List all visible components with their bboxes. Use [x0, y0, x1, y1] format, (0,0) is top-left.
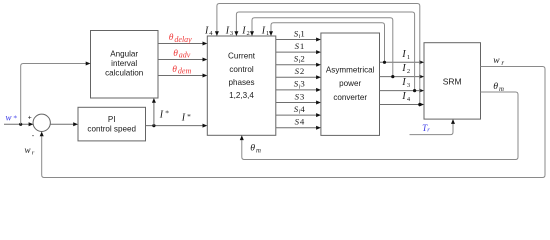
svg-text:1,2,3,4: 1,2,3,4 [229, 91, 254, 100]
svg-text:*: * [165, 109, 169, 118]
label: w_r (lower left) [25, 145, 35, 157]
label: T_r (blue) [422, 123, 430, 134]
wire: S_i1 [276, 38, 321, 42]
wire: w_r feedback loop [40, 67, 545, 178]
wire: theta_delay [158, 42, 207, 46]
label: I_1 (top) [261, 25, 269, 37]
svg-text:2: 2 [407, 68, 410, 75]
svg-text:w: w [493, 56, 500, 66]
label: I_3 (mid) [401, 77, 410, 89]
svg-text:*: * [13, 114, 17, 123]
wire: w* input [4, 122, 33, 126]
svg-text:adv: adv [179, 51, 191, 60]
svg-text:θ: θ [493, 81, 498, 92]
node: I_3 tap [413, 89, 416, 92]
wire: S3 [276, 101, 321, 105]
svg-text:power: power [339, 79, 361, 88]
wire: S1 [276, 50, 321, 54]
label: theta_adv (red) [173, 49, 191, 60]
wire: S_i4 [276, 113, 321, 117]
wire: S2 [276, 75, 321, 79]
svg-text:w: w [25, 145, 31, 155]
svg-text:*: * [187, 112, 191, 121]
svg-text:w: w [6, 113, 12, 123]
svg-text:control speed: control speed [87, 125, 136, 134]
node: I* junction [152, 124, 155, 127]
svg-text:4: 4 [300, 104, 305, 114]
svg-text:3: 3 [300, 79, 305, 89]
label: S2 [295, 66, 305, 76]
svg-text:3: 3 [407, 82, 410, 89]
svg-text:delay: delay [174, 35, 192, 44]
wire: I_1 converter to SRM [380, 60, 425, 64]
wire: S_i3 [276, 88, 321, 92]
svg-text:m: m [256, 147, 261, 154]
svg-text:+: + [28, 114, 32, 121]
svg-text:I: I [401, 77, 406, 88]
svg-text:3: 3 [300, 91, 305, 101]
svg-text:1: 1 [300, 41, 304, 51]
svg-text:2: 2 [300, 54, 304, 64]
svg-text:S: S [295, 91, 300, 101]
wire: w* to Angular interval calculation [21, 62, 91, 125]
block: Current control phases 1,2,3,4 [207, 36, 275, 135]
svg-text:I: I [401, 63, 406, 74]
svg-text:S: S [295, 66, 300, 76]
wire: I_4 converter to SRM [380, 103, 425, 107]
svg-text:Asymmetrical: Asymmetrical [326, 65, 375, 74]
block: PI control speed [78, 107, 146, 141]
block: SRM [424, 43, 481, 119]
svg-text:I: I [159, 109, 164, 120]
node: I_1 tap [383, 61, 386, 64]
svg-text:S: S [295, 41, 300, 51]
label: I_1 (mid) [401, 49, 410, 61]
node: I_2 tap [391, 75, 394, 78]
label: theta_m (right) [493, 81, 504, 93]
svg-text:4: 4 [300, 117, 305, 127]
summing junction [28, 114, 51, 140]
svg-text:dem: dem [178, 67, 192, 76]
svg-text:phases: phases [228, 78, 254, 87]
label: theta_m (bottom) [250, 143, 261, 155]
label: I_2 (top) [241, 25, 249, 37]
svg-text:PI: PI [108, 115, 116, 124]
wire: summing junction to PI [50, 122, 78, 126]
label: S1 [295, 41, 305, 51]
svg-text:m: m [499, 86, 504, 93]
svg-text:interval: interval [111, 59, 137, 68]
block: Angular interval calculation [91, 31, 159, 99]
svg-text:θ: θ [173, 49, 178, 59]
label: I* (right) [181, 112, 191, 124]
svg-text:1: 1 [407, 54, 410, 61]
wire: I_2 converter to SRM [380, 75, 425, 79]
svg-text:SRM: SRM [443, 77, 462, 87]
wire: I_3 converter to SRM [380, 89, 425, 93]
svg-text:3: 3 [230, 30, 233, 37]
svg-text:2: 2 [247, 30, 250, 37]
label: I_3 (top) [225, 25, 233, 37]
svg-text:2: 2 [300, 66, 304, 76]
svg-text:calculation: calculation [105, 69, 143, 78]
label: I* (left) [159, 109, 169, 121]
label: I_4 (mid) [401, 91, 411, 103]
label: S_i3 [294, 79, 306, 91]
svg-text:Angular: Angular [110, 50, 138, 59]
label: theta_dem (red) [172, 65, 191, 76]
wire: theta_m feedback loop [240, 92, 518, 160]
label: I_4 (top) [204, 25, 213, 37]
svg-text:S: S [295, 117, 300, 127]
wire: theta_dem [158, 74, 207, 78]
svg-text:I: I [401, 91, 406, 102]
svg-text:I: I [401, 49, 406, 60]
svg-text:r: r [501, 59, 504, 67]
wire: theta_adv [158, 58, 207, 62]
wire: PI output to Current control [146, 124, 208, 128]
wire: I_4 feedback loop [215, 4, 420, 105]
label: w_r (right) [493, 56, 504, 67]
svg-text:1: 1 [266, 30, 269, 37]
svg-text:control: control [229, 65, 253, 74]
label: theta_delay (red) [169, 33, 192, 44]
wire: S_i2 [276, 63, 321, 67]
label: S3 [295, 91, 305, 101]
wire: I_1 feedback loop [269, 23, 385, 63]
label: I_2 (mid) [401, 63, 410, 75]
svg-text:θ: θ [169, 33, 174, 43]
label: S_i1 [294, 28, 305, 40]
wire: S4 [276, 126, 321, 130]
svg-text:1: 1 [300, 28, 304, 38]
svg-text:I: I [181, 113, 186, 124]
wire: T_r input to SRM [410, 119, 456, 135]
label: w* (blue) [6, 113, 18, 123]
svg-text:θ: θ [172, 65, 177, 75]
label: S_i4 [294, 104, 306, 116]
label: S_i2 [294, 54, 305, 66]
node: I_4 tap [418, 103, 421, 106]
node: w* branch junction [19, 123, 22, 126]
label: S4 [295, 117, 305, 127]
svg-text:θ: θ [250, 143, 255, 154]
wire: I_3 feedback loop [234, 12, 414, 91]
svg-text:Current: Current [228, 52, 256, 61]
wire: I_2 feedback loop [250, 18, 393, 77]
wire: I* feedback up into Angular box [152, 98, 156, 126]
block: Asymmetrical power converter [321, 33, 380, 135]
svg-text:converter: converter [333, 93, 367, 102]
